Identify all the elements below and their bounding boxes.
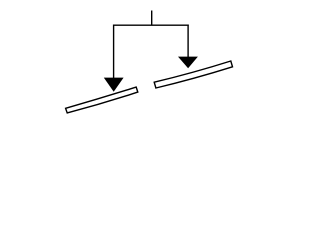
wire: horizontal branch [113,24,189,26]
wire: right vertical branch [187,25,189,63]
arrow contact left [104,78,124,92]
wire: left vertical branch [113,25,115,85]
arrow contact right [178,57,198,69]
wire: top stub [151,11,153,26]
slanted plate right [154,61,232,88]
slanted plate left [66,87,138,113]
